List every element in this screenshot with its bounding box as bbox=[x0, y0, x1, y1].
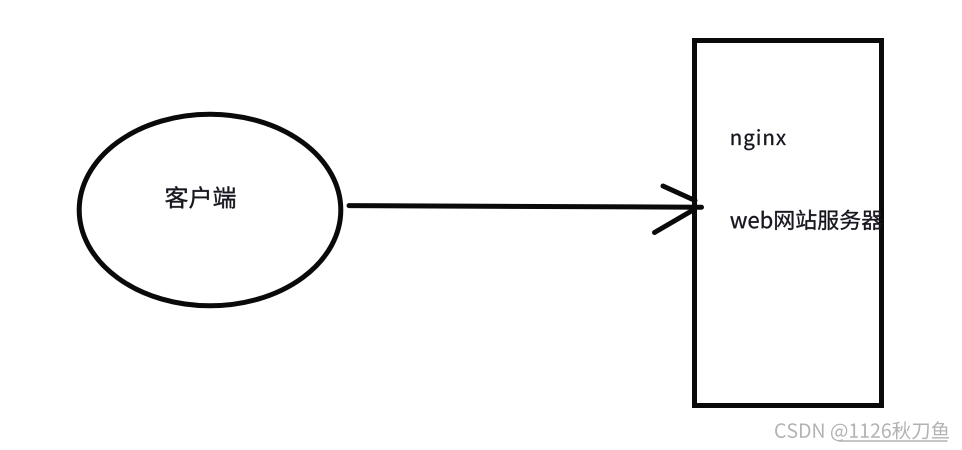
watermark CSDN @1126秋刀鱼 bbox=[775, 421, 949, 441]
node Server rectangle bbox=[695, 41, 882, 406]
watermark underline bbox=[839, 440, 948, 442]
label 客户端 bbox=[165, 186, 235, 209]
arrowhead upper barb bbox=[663, 186, 695, 201]
wire arrow shaft bbox=[349, 206, 702, 208]
label nginx bbox=[732, 129, 786, 150]
node Client ellipse bbox=[79, 114, 341, 306]
arrowhead lower barb bbox=[655, 210, 695, 233]
label web网站服务器 bbox=[730, 210, 882, 230]
